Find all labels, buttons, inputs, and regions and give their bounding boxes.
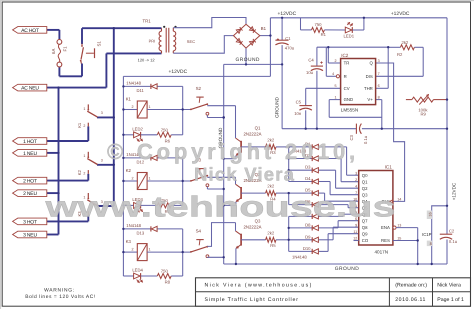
svg-text:R8: R8 — [165, 280, 171, 285]
svg-text:2N2222A: 2N2222A — [244, 132, 262, 137]
svg-text:RES: RES — [381, 238, 390, 243]
svg-text:IC1P: IC1P — [422, 232, 432, 237]
svg-text:5: 5 — [335, 84, 337, 88]
svg-text:R1: R1 — [321, 32, 327, 37]
svg-text:Bold lines = 120 Volts AC!: Bold lines = 120 Volts AC! — [25, 294, 95, 300]
svg-text:1N4148: 1N4148 — [126, 223, 141, 228]
svg-text:8: 8 — [378, 95, 380, 99]
svg-text:2: 2 — [131, 248, 133, 252]
svg-text:3: 3 — [101, 111, 103, 115]
svg-text:Q8: Q8 — [362, 225, 368, 230]
svg-text:D11: D11 — [137, 88, 145, 93]
svg-text:1: 1 — [83, 107, 85, 111]
svg-text:C5: C5 — [296, 100, 302, 105]
svg-text:TR1: TR1 — [143, 19, 152, 24]
svg-text:3: 3 — [355, 171, 357, 175]
svg-text:750: 750 — [161, 127, 169, 132]
svg-text:IC2: IC2 — [341, 53, 349, 58]
svg-text:11: 11 — [353, 230, 357, 234]
svg-text:2 NEU: 2 NEU — [23, 191, 37, 197]
svg-text:16: 16 — [429, 212, 433, 216]
svg-text:+12VDC: +12VDC — [278, 11, 297, 17]
svg-text:2 HOT: 2 HOT — [23, 179, 37, 185]
svg-text:V+: V+ — [367, 97, 373, 102]
svg-text:AC HOT: AC HOT — [21, 28, 39, 34]
svg-text:Page 1 of 1: Page 1 of 1 — [437, 297, 464, 303]
svg-text:WARNING:: WARNING: — [44, 288, 75, 294]
svg-text:120 -> 12: 120 -> 12 — [138, 58, 156, 63]
svg-text:© Copyright 2010,: © Copyright 2010, — [107, 139, 359, 164]
svg-text:R2: R2 — [397, 52, 403, 57]
svg-text:S1: S1 — [97, 41, 102, 47]
svg-text:Simple Traffic Light Controlle: Simple Traffic Light Controller — [205, 297, 299, 303]
svg-text:K3: K3 — [126, 239, 132, 244]
svg-text:PRI: PRI — [149, 39, 156, 44]
svg-text:4: 4 — [355, 184, 357, 188]
svg-text:14: 14 — [397, 197, 401, 201]
svg-text:3: 3 — [378, 59, 380, 63]
svg-text:Q2: Q2 — [362, 186, 368, 191]
svg-text:750: 750 — [161, 269, 169, 274]
svg-text:Q1: Q1 — [362, 179, 368, 184]
svg-text:470u: 470u — [285, 45, 295, 50]
svg-text:LED2: LED2 — [132, 127, 143, 132]
svg-text:R5: R5 — [270, 243, 276, 248]
svg-text:1: 1 — [149, 105, 151, 109]
svg-text:DIS: DIS — [366, 74, 373, 79]
svg-text:2N2222A: 2N2222A — [244, 225, 262, 230]
svg-text:ENA: ENA — [381, 225, 390, 230]
svg-text:C2: C2 — [449, 228, 455, 233]
svg-text:6: 6 — [378, 84, 380, 88]
svg-text:0.1u: 0.1u — [449, 239, 458, 244]
svg-text:GND: GND — [344, 97, 354, 102]
svg-text:2k2: 2k2 — [402, 40, 409, 45]
svg-text:R9: R9 — [421, 112, 427, 117]
svg-text:750: 750 — [315, 22, 323, 27]
svg-text:LM555N: LM555N — [341, 107, 358, 112]
svg-text:1: 1 — [149, 177, 151, 181]
svg-text:LED4: LED4 — [132, 268, 143, 273]
svg-text:D13: D13 — [137, 231, 145, 236]
svg-text:K1: K1 — [126, 96, 132, 101]
svg-text:IC1: IC1 — [385, 165, 393, 170]
svg-text:Nick Viera (www.tehhouse.us): Nick Viera (www.tehhouse.us) — [205, 283, 313, 289]
svg-text:Nick Viera: Nick Viera — [437, 283, 461, 289]
svg-text:3: 3 — [101, 159, 103, 163]
svg-text:Q9: Q9 — [362, 231, 368, 236]
svg-text:Q1: Q1 — [255, 126, 261, 131]
svg-text:2: 2 — [131, 105, 133, 109]
svg-text:13: 13 — [397, 224, 401, 228]
svg-text:2: 2 — [131, 177, 133, 181]
svg-text:+12VDC: +12VDC — [169, 69, 188, 75]
svg-text:Nick Viera: Nick Viera — [194, 164, 295, 185]
svg-text:C1: C1 — [285, 36, 291, 41]
svg-text:1: 1 — [149, 248, 151, 252]
svg-text:2: 2 — [355, 178, 357, 182]
svg-text:Q0: Q0 — [362, 173, 368, 178]
svg-text:8: 8 — [430, 242, 432, 246]
svg-text:K2: K2 — [126, 168, 132, 173]
svg-text:2010.06.11: 2010.06.11 — [395, 297, 426, 303]
svg-text:F1: F1 — [62, 46, 67, 52]
svg-text:3 HOT: 3 HOT — [23, 219, 37, 225]
svg-text:GROUND: GROUND — [335, 266, 359, 272]
svg-text:15: 15 — [397, 237, 401, 241]
svg-text:1: 1 — [83, 154, 85, 158]
svg-text:(Remade on:): (Remade on:) — [395, 283, 427, 289]
svg-text:10u: 10u — [306, 70, 314, 75]
svg-text:C4: C4 — [308, 57, 314, 62]
svg-text:2: 2 — [83, 124, 85, 128]
svg-text:TR: TR — [344, 61, 350, 66]
svg-text:2: 2 — [83, 171, 85, 175]
svg-text:S2: S2 — [196, 86, 202, 91]
svg-text:+12VDC: +12VDC — [451, 182, 456, 200]
svg-text:B1: B1 — [261, 26, 267, 31]
svg-text:2k2: 2k2 — [267, 230, 274, 235]
svg-text:D3: D3 — [305, 165, 311, 170]
svg-text:K1: K1 — [77, 122, 82, 128]
svg-text:D4: D4 — [305, 176, 311, 181]
svg-text:D9: D9 — [305, 234, 311, 239]
svg-text:1N4148: 1N4148 — [292, 254, 307, 259]
svg-text:4: 4 — [332, 72, 334, 76]
svg-text:SEC: SEC — [187, 39, 195, 44]
svg-text:+12VDC: +12VDC — [391, 11, 410, 17]
svg-text:www.tehhouse.us: www.tehhouse.us — [44, 192, 395, 224]
svg-text:1: 1 — [335, 95, 337, 99]
svg-text:R: R — [344, 74, 347, 79]
svg-text:K2: K2 — [77, 170, 82, 176]
svg-text:S4: S4 — [196, 228, 202, 233]
svg-text:THR: THR — [364, 86, 373, 91]
svg-text:2: 2 — [335, 59, 337, 63]
svg-text:9: 9 — [355, 223, 357, 227]
svg-text:D10: D10 — [303, 246, 311, 251]
svg-text:7: 7 — [378, 72, 380, 76]
svg-text:3 NEU: 3 NEU — [23, 232, 37, 238]
svg-text:1 NEU: 1 NEU — [23, 151, 37, 157]
svg-text:LED1: LED1 — [344, 34, 355, 39]
svg-text:GROUND: GROUND — [274, 96, 279, 117]
svg-text:CO: CO — [362, 238, 369, 243]
svg-text:AC NEU: AC NEU — [21, 86, 39, 92]
svg-text:0.1u: 0.1u — [363, 135, 368, 144]
svg-text:1N4148: 1N4148 — [126, 81, 141, 86]
svg-text:CV: CV — [344, 86, 350, 91]
svg-text:GROUND: GROUND — [235, 57, 259, 63]
svg-text:4017N: 4017N — [375, 249, 389, 254]
svg-text:1 HOT: 1 HOT — [23, 139, 37, 145]
svg-text:6A: 6A — [51, 49, 56, 54]
svg-text:10n: 10n — [294, 111, 302, 116]
